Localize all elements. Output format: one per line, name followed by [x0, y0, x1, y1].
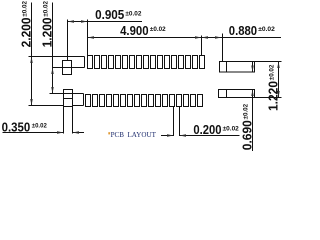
svg-text:±0.02: ±0.02 [32, 123, 47, 130]
svg-text:±0.02: ±0.02 [150, 26, 166, 33]
svg-text:1.220: 1.220 [266, 81, 281, 111]
svg-text:±0.02: ±0.02 [242, 104, 249, 120]
svg-text:0.905: 0.905 [95, 7, 124, 22]
svg-text:PCB LAYOUT: PCB LAYOUT [111, 130, 157, 139]
svg-text:2.200: 2.200 [19, 17, 34, 47]
svg-text:1.200: 1.200 [40, 17, 55, 47]
svg-text:±0.02: ±0.02 [268, 65, 275, 81]
svg-text:0.690: 0.690 [240, 120, 255, 150]
svg-text:±0.02: ±0.02 [258, 26, 275, 33]
svg-text:0.200: 0.200 [193, 122, 221, 137]
svg-text:±0.02: ±0.02 [42, 1, 49, 17]
svg-text:±0.02: ±0.02 [125, 10, 141, 17]
svg-text:0.350: 0.350 [2, 120, 31, 135]
svg-text:0.880: 0.880 [229, 23, 257, 38]
svg-text:4.900: 4.900 [120, 23, 149, 38]
svg-text:±0.02: ±0.02 [21, 1, 28, 17]
svg-text:±0.02: ±0.02 [223, 125, 239, 132]
